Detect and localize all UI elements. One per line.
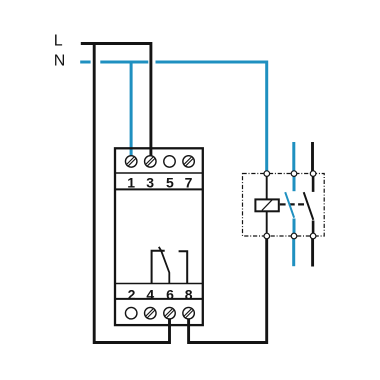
internal changeover contact lead 4 with top bar [152,251,165,283]
device body [115,148,203,325]
relay dashed enclosure [243,174,325,237]
device inner line below top terminals [115,172,203,174]
wire load black from top to contact node [311,142,314,175]
node contact S2 bottom [310,233,316,239]
svg-text:5: 5 [166,174,174,190]
wire N neutral line segment B [100,61,148,64]
wire N neutral line segment A [80,61,90,64]
contact S1 bottom lead [293,219,296,237]
svg-text:6: 6 [166,286,174,302]
wire N neutral line segment C to relay coil node [156,62,267,175]
device inner line below top labels [115,188,203,190]
contact S1 top lead [293,174,296,192]
wire below box black [311,236,314,267]
relay coil K1 top lead [266,174,268,200]
node coil bottom [264,233,270,239]
internal changeover contact lead 8 with top bar [179,251,188,283]
terminal 2 screw [125,307,137,319]
node contact S2 top [310,171,316,177]
node contact S1 top [291,171,297,177]
svg-text:7: 7 [185,174,193,190]
relay coil K1 bottom lead [266,211,268,236]
wire terminal 8 to relay coil return [189,234,267,343]
terminal 8 screw [183,307,195,319]
internal changeover contact blade to terminal 6 [159,247,170,283]
svg-text:1: 1 [127,174,135,190]
contact S2 top lead [312,174,315,192]
terminal 3 screw [145,156,157,168]
device inner line above bottom labels [115,283,203,285]
node contact S1 bottom [291,233,297,239]
svg-text:N: N [54,53,66,70]
terminal 4 screw [145,307,157,319]
terminal 7 screw [183,156,195,168]
svg-text:3: 3 [146,174,154,190]
wire L down left side to terminal 6 [94,44,169,343]
wire L phase line with drop to terminal 3 [81,44,151,158]
contact S1 blade [285,192,294,218]
node coil top [264,171,270,177]
wire load blue from top to contact node [292,142,295,175]
wire below box blue [292,236,295,266]
wire N branch to terminal 1 [130,62,133,157]
relay coil K1 [255,199,278,211]
svg-text:4: 4 [146,286,154,302]
contact S2 blade [304,192,314,220]
contact S2 bottom lead [312,221,315,237]
svg-text:2: 2 [128,286,136,302]
mechanical linkage dashed [289,203,306,205]
svg-text:L: L [54,33,63,50]
terminal 1 screw [125,156,137,168]
mechanical linkage stub [280,203,286,205]
device inner line above bottom terminals [115,298,203,300]
svg-text:8: 8 [185,286,193,302]
terminal 5 screw [164,156,176,168]
terminal 6 screw [164,307,176,319]
